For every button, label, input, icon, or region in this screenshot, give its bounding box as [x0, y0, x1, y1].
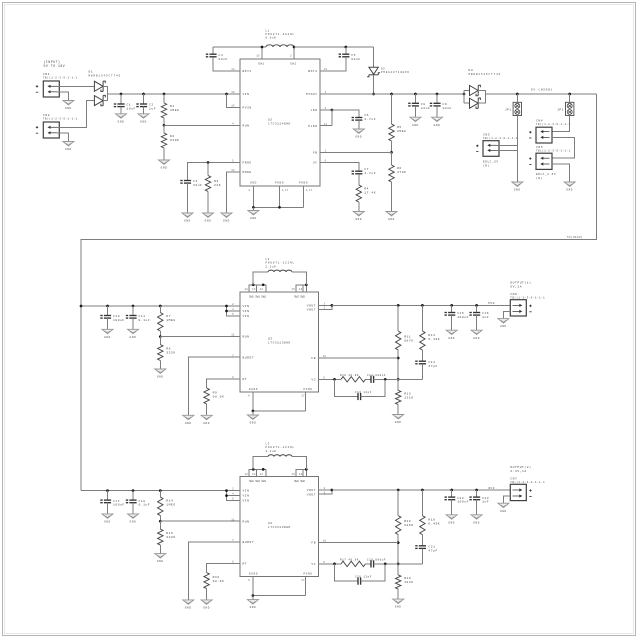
svg-text:12: 12 [324, 68, 328, 71]
wire VC [332, 163, 359, 172]
resistor R4 [356, 185, 361, 202]
ground [446, 330, 457, 340]
resistor R3 [207, 161, 210, 164]
capacitor C14 [415, 361, 426, 364]
svg-text:1MEG: 1MEG [170, 109, 179, 112]
svg-text:2: 2 [290, 55, 292, 58]
svg-text:VOUT: VOUT [307, 493, 316, 496]
wire SW1 pins U3 [249, 285, 266, 292]
capacitor C17 [106, 489, 109, 492]
svg-text:EGND: EGND [249, 388, 258, 391]
wire SW2 pins U3 [296, 285, 307, 292]
wire CN6 pin2 to GND [503, 311, 510, 318]
node FB [397, 541, 400, 544]
junction C5 [344, 46, 347, 49]
svg-text:5V,2A: 5V,2A [510, 285, 522, 288]
svg-text:47pF: 47pF [428, 365, 437, 368]
ground [471, 515, 482, 525]
svg-text:13: 13 [252, 288, 256, 291]
svg-text:C12 680pF: C12 680pF [367, 374, 386, 377]
svg-text:GND: GND [205, 220, 212, 223]
resistor R11 [397, 304, 400, 307]
svg-text:887K: 887K [404, 339, 413, 342]
svg-text:R9: R9 [213, 392, 218, 395]
ground [432, 117, 443, 127]
svg-text:GND: GND [250, 217, 257, 220]
svg-text:7: 7 [232, 354, 234, 357]
node FB [390, 151, 393, 154]
svg-text:GND: GND [140, 120, 147, 123]
svg-text:VIN: VIN [243, 305, 250, 308]
svg-text:PGND: PGND [299, 182, 308, 185]
svg-text:11: 11 [324, 123, 328, 126]
wire R20 to FB/VC [397, 535, 399, 575]
svg-text:GND: GND [250, 606, 257, 609]
svg-text:10: 10 [231, 91, 235, 94]
svg-text:R16: R16 [213, 576, 220, 579]
svg-text:R7: R7 [166, 315, 171, 318]
capacitor C4 [212, 47, 214, 54]
svg-text:18: 18 [323, 355, 327, 358]
svg-text:VIN: VIN [243, 93, 250, 96]
svg-text:7: 7 [232, 539, 234, 542]
svg-text:2: 2 [232, 488, 234, 491]
svg-text:100uF: 100uF [113, 504, 125, 507]
wire VIN rail [121, 93, 228, 95]
wire RUN U4 [160, 520, 228, 522]
wire FB U3 [319, 357, 399, 359]
svg-text:3V3: 3V3 [488, 487, 495, 490]
svg-text:C10: C10 [113, 315, 120, 318]
svg-text:TB((1-2-3-0-1-1-1: TB((1-2-3-0-1-1-1 [510, 297, 545, 300]
capacitor C18 [132, 489, 135, 492]
svg-text:16: 16 [231, 169, 235, 172]
wire VC U3 [319, 378, 342, 380]
node VC [397, 563, 400, 566]
svg-text:C1: C1 [127, 104, 132, 107]
svg-text:98.9K: 98.9K [213, 395, 225, 398]
resistor R14 [159, 489, 162, 492]
svg-text:U2: U2 [268, 118, 272, 121]
svg-text:5: 5 [232, 498, 234, 501]
ground [353, 129, 364, 139]
svg-text:GND: GND [355, 218, 362, 221]
resistor R5 [390, 93, 393, 96]
wire CN1 pin1 to D1 [57, 85, 94, 87]
svg-text:VC: VC [313, 162, 318, 165]
svg-text:12: 12 [245, 288, 249, 291]
svg-text:R12: R12 [404, 393, 411, 396]
capacitor C5 [345, 47, 347, 54]
svg-text:R5: R5 [397, 126, 402, 129]
svg-text:22uF: 22uF [421, 107, 430, 110]
wire RT U4 [207, 563, 228, 572]
svg-text:GND: GND [395, 606, 402, 609]
ground [201, 600, 212, 610]
svg-text:33nF: 33nF [193, 184, 202, 187]
wire BURST U4 [188, 542, 228, 600]
svg-text:8: 8 [232, 561, 234, 564]
svg-text:5V0: 5V0 [488, 302, 495, 305]
svg-text:PGND: PGND [304, 388, 313, 391]
svg-text:SW2 SW2: SW2 SW2 [294, 295, 305, 298]
svg-text:TB((1-2-3-0-1-1-1: TB((1-2-3-0-1-1-1 [536, 150, 571, 153]
op-amp U2 LTC3114 buck-boost converter [240, 59, 320, 186]
svg-text:VIN: VIN [243, 315, 250, 318]
svg-text:4.7uF: 4.7uF [364, 118, 376, 121]
svg-text:GND: GND [500, 325, 507, 328]
svg-text:1,17: 1,17 [281, 189, 288, 192]
capacitor C10 [106, 305, 109, 308]
svg-text:R11: R11 [404, 336, 411, 339]
svg-text:GND: GND [355, 136, 362, 139]
wire CN1 pin2 to GND [57, 92, 68, 101]
svg-text:C7: C7 [364, 168, 369, 171]
svg-text:C6: C6 [364, 114, 369, 117]
ground [248, 211, 259, 221]
wire FB [332, 151, 392, 153]
svg-text:TB((1-2-3-0-1-1-1: TB((1-2-3-0-1-1-1 [483, 137, 518, 140]
svg-text:5: 5 [232, 160, 234, 163]
wire PROG [188, 163, 241, 181]
wire JP1 to CN3/GND [516, 116, 518, 183]
svg-text:C19 680pF: C19 680pF [367, 559, 386, 562]
svg-text:14: 14 [260, 473, 264, 476]
svg-text:121K: 121K [404, 396, 413, 399]
svg-text:470K: 470K [397, 171, 406, 174]
svg-text:13: 13 [252, 473, 256, 476]
svg-text:3: 3 [325, 91, 327, 94]
svg-text:9: 9 [323, 376, 325, 379]
svg-text:C2: C2 [149, 104, 154, 107]
svg-text:EGND: EGND [249, 572, 258, 575]
svg-text:GND: GND [130, 521, 137, 524]
svg-text:GND: GND [448, 337, 455, 340]
svg-text:GND: GND [448, 521, 455, 524]
ground [498, 503, 509, 513]
resistor R13 [421, 304, 424, 307]
svg-text:EDLC_2.5V: EDLC_2.5V [536, 173, 556, 176]
capacitor C9 [436, 93, 439, 96]
svg-text:L2: L2 [266, 258, 270, 261]
wire pin stubs U2 top [261, 47, 263, 59]
wire pin stubs U3 left [228, 336, 240, 338]
wire CN3 pin2 [497, 149, 518, 151]
svg-text:5V(HIGH): 5V(HIGH) [567, 236, 583, 239]
svg-text:GND: GND [203, 607, 210, 610]
svg-text:VC: VC [311, 563, 316, 566]
svg-text:C9: C9 [443, 103, 448, 106]
wire R11 to FB/VC [397, 350, 399, 390]
svg-text:14: 14 [231, 68, 235, 71]
svg-text:2MEG: 2MEG [397, 130, 406, 133]
wire 5V rail [486, 93, 597, 95]
svg-text:D2: D2 [381, 67, 385, 70]
ground [446, 515, 457, 525]
svg-text:PGND: PGND [304, 572, 313, 575]
ground [512, 182, 523, 192]
wire SW2 pins U4 [296, 469, 307, 476]
svg-text:GND: GND [566, 189, 573, 192]
svg-text:PD88T1-222NL: PD88T1-222NL [266, 262, 295, 265]
resistor R2 [163, 125, 165, 133]
svg-text:R3: R3 [214, 180, 219, 183]
ground U2 power pins [252, 207, 254, 210]
svg-text:C14: C14 [428, 361, 435, 364]
svg-text:17: 17 [301, 395, 305, 398]
wire PGND pins U2 [279, 186, 281, 207]
svg-text:68nF: 68nF [219, 58, 228, 61]
svg-text:GND: GND [104, 521, 111, 524]
svg-text:C18: C18 [139, 500, 146, 503]
resistor R18 [421, 489, 424, 492]
svg-text:8: 8 [232, 376, 234, 379]
wire pin stubs U2 right [320, 70, 332, 72]
junction C1 [120, 93, 123, 96]
svg-text:C16: C16 [482, 312, 489, 315]
svg-text:649K: 649K [170, 139, 179, 142]
ground [247, 415, 258, 425]
svg-text:C21: C21 [428, 546, 435, 549]
svg-text:R20: R20 [404, 520, 411, 523]
wire RUN U3 [160, 336, 228, 338]
svg-text:15: 15 [292, 473, 296, 476]
svg-text:17.4K: 17.4K [364, 191, 376, 194]
svg-text:R15: R15 [166, 532, 173, 535]
svg-text:332K: 332K [166, 351, 175, 354]
svg-text:14: 14 [260, 288, 264, 291]
svg-text:2: 2 [325, 150, 327, 153]
ground [63, 101, 74, 111]
ground [155, 369, 166, 379]
svg-text:9: 9 [323, 561, 325, 564]
svg-text:VOUT: VOUT [307, 489, 316, 492]
op-amp U4 LTC3113DHD buck-boost converter [240, 477, 319, 577]
svg-text:6.8uH: 6.8uH [266, 37, 277, 40]
svg-text:C11: C11 [139, 315, 146, 318]
svg-text:47pF: 47pF [428, 549, 437, 552]
wire CN2 pin2 to GND [57, 133, 68, 142]
capacitor C21 [415, 546, 426, 549]
svg-text:RT: RT [243, 563, 248, 566]
svg-text:GND: GND [203, 422, 210, 425]
resistor R15 [159, 521, 161, 529]
capacitor C15 [450, 304, 453, 307]
svg-text:2.2uH: 2.2uH [266, 265, 277, 268]
svg-text:(R): (R) [483, 164, 490, 168]
svg-text:2: 2 [324, 487, 326, 490]
wire SW1 pins U4 [249, 469, 266, 476]
svg-text:MBRB1545CTT4G: MBRB1545CTT4G [89, 75, 122, 78]
svg-text:6.49K: 6.49K [428, 338, 440, 341]
ground [393, 415, 404, 425]
svg-text:GND: GND [118, 120, 125, 123]
ground [183, 415, 194, 425]
svg-text:GND: GND [104, 336, 111, 339]
svg-text:15: 15 [256, 55, 260, 58]
ground [353, 212, 364, 222]
svg-text:LTC3113DHD: LTC3113DHD [268, 526, 291, 529]
wire VOUT rail U4 [319, 489, 332, 491]
wire ground pins U4 [252, 577, 254, 596]
svg-text:100uF: 100uF [457, 501, 469, 504]
svg-text:LTC3114DHD: LTC3114DHD [268, 122, 291, 125]
resistor R16 [204, 573, 209, 589]
svg-text:RUN: RUN [243, 520, 250, 523]
svg-text:3: 3 [324, 491, 326, 494]
ground [138, 114, 149, 124]
jumper JP1 [513, 102, 521, 115]
svg-text:GND: GND [412, 124, 419, 127]
ground [155, 554, 166, 564]
svg-text:VOUT: VOUT [307, 309, 316, 312]
svg-text:12: 12 [245, 473, 249, 476]
svg-text:(R): (R) [536, 176, 543, 180]
svg-text:R8: R8 [166, 348, 171, 351]
svg-text:3: 3 [324, 307, 326, 310]
wire CN3 pin1 [497, 144, 518, 146]
ground [128, 329, 139, 339]
wire FB U4 [319, 542, 399, 544]
svg-text:GND: GND [185, 422, 192, 425]
svg-text:U4: U4 [268, 522, 272, 525]
wire VOUT rail U3 [319, 304, 332, 306]
wire VIN pins U3 [227, 305, 241, 307]
svg-text:22K: 22K [214, 184, 221, 187]
svg-text:R4: R4 [364, 188, 369, 191]
wire VC U4 [319, 563, 342, 565]
svg-text:10uF: 10uF [127, 108, 136, 111]
wire LDO [331, 109, 334, 112]
svg-text:BST1: BST1 [243, 70, 252, 73]
svg-text:C17: C17 [113, 500, 120, 503]
wire CN5 pin2 to GND [552, 164, 570, 182]
svg-text:R13: R13 [428, 334, 435, 337]
svg-text:6.49K: 6.49K [428, 523, 440, 526]
svg-text:SW2 SW2: SW2 SW2 [294, 480, 305, 483]
wire GND pin U2 [252, 186, 254, 207]
resistor R9 [204, 388, 209, 404]
svg-text:182K: 182K [404, 581, 413, 584]
wire JP2 to CN4 [552, 116, 570, 132]
svg-text:BURST: BURST [243, 356, 255, 359]
svg-text:GND: GND [500, 510, 507, 513]
diode D2 [373, 47, 375, 67]
svg-text:R1: R1 [170, 105, 175, 108]
svg-text:PGND: PGND [275, 182, 284, 185]
svg-text:VIN: VIN [243, 500, 250, 503]
svg-text:SW2: SW2 [290, 63, 297, 66]
svg-text:RUN: RUN [243, 336, 250, 339]
resistor R19 [396, 575, 401, 589]
svg-text:GND: GND [65, 148, 72, 151]
svg-text:16: 16 [299, 288, 303, 291]
svg-text:SW1: SW1 [258, 63, 265, 66]
wire PVOUT rail [332, 93, 464, 95]
svg-text:332K: 332K [166, 536, 175, 539]
ground [386, 212, 397, 222]
svg-text:PROG: PROG [243, 162, 252, 165]
wire CN7 pin2 to GND [503, 496, 510, 503]
svg-text:1MEG: 1MEG [166, 319, 175, 322]
svg-text:OUTPUT(1): OUTPUT(1) [510, 281, 531, 285]
svg-text:PLDO: PLDO [308, 125, 317, 128]
wire pin stubs U4 left [228, 520, 240, 522]
svg-text:GND: GND [514, 189, 521, 192]
svg-text:15: 15 [292, 288, 296, 291]
svg-text:MBRB1545CTT4G: MBRB1545CTT4G [469, 73, 502, 76]
capacitor C2 [142, 93, 145, 96]
svg-text:98.9K: 98.9K [213, 580, 225, 583]
svg-text:C5: C5 [351, 54, 356, 57]
resistor R7 [159, 305, 162, 308]
svg-text:R2: R2 [170, 135, 175, 138]
svg-text:0.1uF: 0.1uF [139, 319, 151, 322]
svg-text:18: 18 [323, 540, 327, 543]
svg-text:PVOUT: PVOUT [306, 93, 318, 96]
svg-text:GND: GND [473, 337, 480, 340]
wire PVIN [225, 93, 228, 96]
capacitor C22 [450, 489, 453, 492]
svg-text:LTC3113DHD: LTC3113DHD [268, 342, 291, 345]
capacitor C20 [335, 564, 359, 581]
capacitor C3 [180, 181, 191, 184]
ground [102, 329, 113, 339]
svg-text:C22: C22 [457, 497, 464, 500]
svg-text:8: 8 [249, 189, 251, 192]
svg-text:C23: C23 [482, 497, 489, 500]
wire VIN rail U4 [81, 490, 228, 492]
svg-text:GND: GND [130, 336, 137, 339]
svg-text:6: 6 [248, 579, 250, 582]
svg-text:VOUT: VOUT [307, 305, 316, 308]
svg-text:R18: R18 [428, 519, 435, 522]
svg-text:2.2uH: 2.2uH [266, 450, 277, 453]
svg-text:GND: GND [161, 167, 168, 170]
ground [128, 514, 139, 524]
capacitor C13 [335, 379, 359, 396]
svg-text:CN7: CN7 [510, 478, 517, 481]
svg-text:C4: C4 [219, 54, 224, 57]
svg-text:4: 4 [232, 493, 234, 496]
capacitor C23 [475, 489, 478, 492]
svg-text:15: 15 [231, 105, 235, 108]
svg-text:LDO: LDO [311, 109, 318, 112]
svg-text:R14: R14 [166, 500, 173, 503]
svg-text:GND: GND [184, 220, 191, 223]
svg-text:FB: FB [313, 152, 318, 155]
wire pin stubs U2 left [228, 70, 240, 72]
ground [564, 182, 575, 192]
capacitor C16 [475, 304, 478, 307]
svg-text:GND: GND [185, 607, 192, 610]
svg-text:GND: GND [434, 124, 441, 127]
svg-text:2: 2 [324, 303, 326, 306]
svg-text:2: 2 [232, 303, 234, 306]
svg-text:TB((1-2-3-0-1-1-1: TB((1-2-3-0-1-1-1 [43, 118, 78, 121]
svg-text:825K: 825K [404, 524, 413, 527]
junction JP2 [568, 93, 571, 96]
svg-text:OUTPUT(2): OUTPUT(2) [510, 465, 531, 469]
svg-text:L3: L3 [266, 443, 270, 446]
ground [102, 514, 113, 524]
svg-text:BST2: BST2 [308, 70, 317, 73]
svg-text:GND: GND [388, 218, 395, 221]
svg-text:VC: VC [311, 378, 316, 381]
svg-text:GND: GND [250, 182, 257, 185]
resistor R8 [159, 337, 161, 345]
ground [159, 160, 170, 170]
